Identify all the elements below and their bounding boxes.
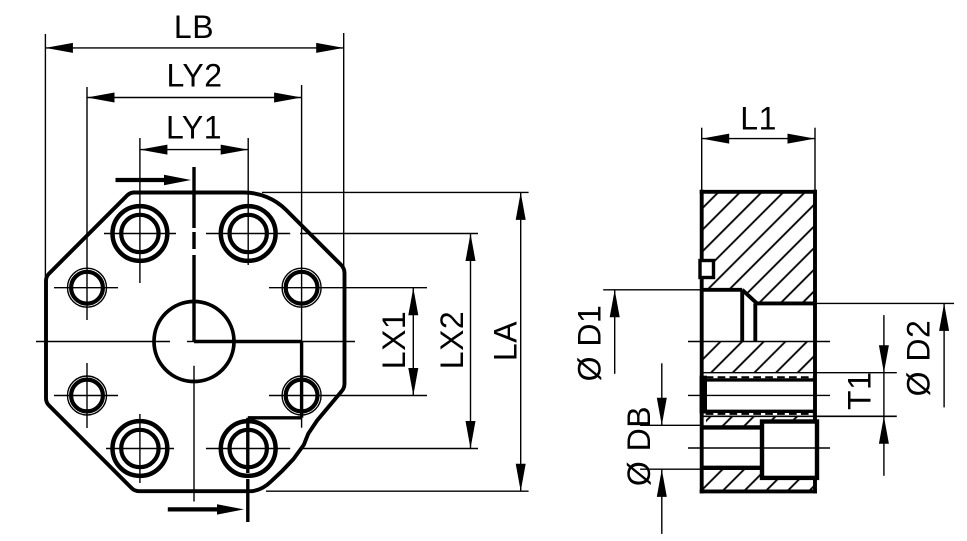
svg-text:Ø D2: Ø D2 (901, 320, 937, 397)
svg-text:T1: T1 (842, 372, 878, 410)
svg-text:Ø DB: Ø DB (621, 406, 657, 486)
svg-text:LY2: LY2 (166, 57, 222, 93)
svg-text:LA: LA (488, 321, 524, 361)
svg-text:L1: L1 (740, 100, 777, 136)
svg-text:LY1: LY1 (166, 109, 222, 145)
svg-text:Ø D1: Ø D1 (572, 305, 608, 382)
svg-text:LX1: LX1 (376, 311, 412, 369)
svg-text:LX2: LX2 (434, 311, 470, 369)
svg-text:LB: LB (174, 9, 214, 45)
